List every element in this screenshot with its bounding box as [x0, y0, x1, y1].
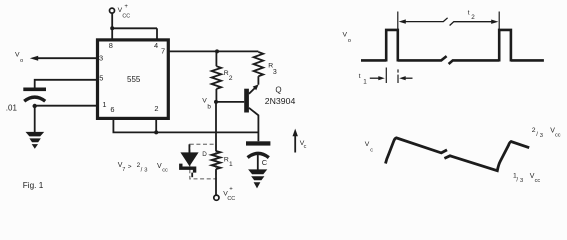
svg-text:cc: cc: [555, 132, 561, 138]
dimension arrow t2 left half: [399, 18, 448, 24]
label Vcc+ top: [118, 4, 131, 20]
junction pin 2 rail: [154, 130, 158, 134]
wire pin 7 horizontal: [168, 50, 259, 52]
svg-text:2: 2: [471, 14, 475, 21]
node Vb label: [202, 98, 211, 111]
svg-text:8: 8: [109, 41, 113, 50]
waveform Vo pulse 1: [386, 30, 398, 62]
resistor R2: [212, 66, 222, 89]
pin 6: [110, 105, 114, 114]
svg-text:c: c: [370, 147, 373, 153]
label Vo waveform: [343, 32, 351, 44]
svg-text:2N3904: 2N3904: [265, 96, 296, 106]
wire C1 to ground: [257, 153, 259, 170]
svg-text:1: 1: [229, 161, 233, 168]
svg-text:7: 7: [161, 47, 165, 56]
svg-text:+: +: [229, 186, 233, 192]
pin 8: [109, 41, 113, 50]
svg-text:2: 2: [229, 75, 233, 82]
svg-text:7: 7: [122, 167, 125, 173]
svg-text:t: t: [359, 73, 361, 80]
transistor Q1 upper lead with arrow: [249, 84, 259, 94]
svg-text:2: 2: [154, 104, 158, 113]
node Vo label: [15, 51, 23, 63]
wire Vcc vertical to pin 8: [111, 13, 113, 40]
resistor R1: [212, 151, 221, 169]
arrowhead output Vo: [30, 56, 38, 61]
wire node to ground: [34, 106, 36, 132]
dimension arrow t2 right half: [450, 20, 499, 26]
svg-text:t: t: [468, 10, 470, 17]
dimension arrow t1 pointing right: [370, 76, 385, 80]
arrow Vc measurement: [293, 129, 298, 153]
pin 4: [154, 41, 158, 50]
svg-text:2: 2: [532, 127, 536, 134]
wire LED anode lead: [188, 144, 190, 152]
label C: [262, 158, 268, 167]
svg-text:+: +: [124, 4, 128, 10]
wire R2 top lead: [215, 51, 217, 66]
value label .01: [6, 104, 18, 113]
terminal Vcc+ top: [110, 8, 115, 13]
pin 3: [99, 53, 103, 62]
svg-text:o: o: [20, 58, 23, 64]
svg-text:3: 3: [273, 69, 277, 76]
pin 5: [99, 74, 103, 83]
wire pin 3 output: [34, 57, 98, 59]
ground right: [248, 169, 267, 188]
waveform Vo pulse 2: [499, 30, 511, 62]
wire bottom rail pins 6 and 2: [113, 119, 258, 132]
svg-text:CC: CC: [122, 14, 130, 20]
label R3: [268, 63, 277, 76]
svg-text:D: D: [202, 151, 207, 158]
svg-text:3: 3: [540, 133, 543, 139]
wire pin 4 vertical: [156, 28, 158, 40]
label Vcc+ bottom: [223, 186, 235, 202]
label 1/3 Vcc: [513, 172, 540, 184]
svg-text:b: b: [207, 103, 211, 110]
terminal Vcc+ bottom: [214, 195, 219, 200]
label 2/3 Vcc: [532, 127, 561, 139]
svg-text:cc: cc: [162, 168, 168, 174]
capacitor C2 .01 top plate: [23, 88, 46, 92]
wire R3 bottom lead: [257, 76, 259, 84]
label R1: [224, 157, 233, 169]
svg-text:V: V: [365, 141, 370, 148]
transistor Q1 base bar: [244, 89, 249, 113]
svg-text:3: 3: [520, 178, 523, 184]
pin 7: [161, 47, 165, 56]
svg-text:6: 6: [110, 105, 114, 114]
svg-text:1: 1: [363, 79, 367, 86]
wire R1 bottom lead: [215, 169, 217, 195]
label Q: [275, 86, 281, 95]
svg-text:3: 3: [99, 53, 103, 62]
svg-text:5: 5: [99, 74, 103, 83]
svg-text:>: >: [128, 164, 132, 171]
wire Vcc horizontal to pin 4: [112, 27, 157, 29]
waveform Vo baseline left: [361, 59, 386, 62]
svg-text:o: o: [348, 38, 351, 44]
svg-text:555: 555: [127, 75, 141, 84]
wire R2 bottom lead: [215, 89, 217, 102]
wire Vb down to R1: [215, 102, 217, 151]
dashed optional box for LED: [190, 144, 216, 179]
junction cap / pin1 node: [33, 104, 37, 108]
label D: [202, 151, 207, 158]
svg-text:C: C: [262, 158, 268, 167]
svg-text:1: 1: [102, 100, 106, 109]
wire pin 5 to bypass cap: [35, 80, 98, 88]
capacitor C1 top plate: [246, 141, 270, 145]
label R2: [224, 70, 233, 82]
svg-text:V: V: [343, 32, 348, 39]
resistor R3: [254, 52, 264, 76]
waveform Vc right segment: [444, 142, 529, 171]
junction node Vb: [214, 100, 218, 104]
pin 1: [102, 100, 106, 109]
label 2N3904: [265, 96, 296, 106]
transistor Q1 lower lead: [249, 108, 259, 142]
ground left: [26, 132, 45, 149]
svg-text:4: 4: [154, 41, 158, 50]
node Vc label circuit: [300, 140, 307, 150]
svg-text:cc: cc: [535, 178, 541, 184]
svg-text:3: 3: [144, 168, 147, 174]
dimension arrow t1 pointing left: [399, 76, 412, 80]
diode D cathode bar: [181, 164, 195, 178]
wire pin 2 stub: [155, 119, 157, 132]
svg-text:Q: Q: [275, 86, 281, 95]
junction pin7 / R2: [215, 49, 219, 53]
svg-text:CC: CC: [227, 196, 235, 202]
svg-text:.01: .01: [6, 104, 18, 113]
waveform Vo baseline middle with break: [398, 56, 499, 64]
waveform Vc left segment with break flick: [386, 138, 448, 164]
pin 2: [154, 104, 158, 113]
extension line t1 left: [385, 68, 387, 84]
extension line t1 right: [397, 69, 399, 83]
junction Vcc node: [110, 26, 114, 30]
waveform Vo baseline right: [511, 59, 544, 62]
capacitor C1 bottom plate: [248, 153, 269, 157]
extension line pulse1 falling edge: [397, 12, 399, 31]
capacitor C2 .01 bottom plate: [24, 97, 45, 101]
svg-text:c: c: [304, 144, 307, 150]
op-amp U1 555 timer body: [98, 40, 169, 119]
extension line pulse2 rising edge: [498, 12, 500, 31]
svg-text:Fig. 1: Fig. 1: [23, 181, 44, 190]
wire node to pin 1: [35, 105, 98, 107]
label t2: [468, 10, 475, 21]
label V7 > 2/3 Vcc: [118, 162, 168, 174]
label Fig. 1: [23, 181, 44, 190]
label t1: [359, 73, 367, 86]
diode D LED triangle: [180, 152, 198, 166]
label Vc waveform: [365, 141, 374, 153]
wire base from Vb: [216, 101, 244, 103]
